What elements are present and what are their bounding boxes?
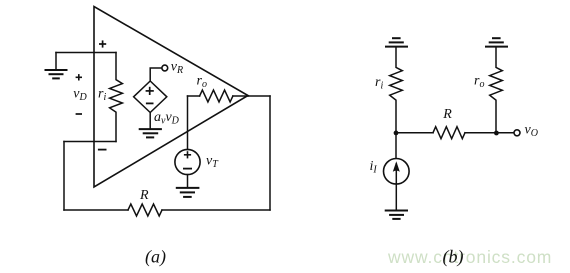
wire feedback bottom right [162, 209, 270, 211]
svg-text:(a): (a) [145, 247, 166, 268]
wire r_o left [188, 95, 200, 97]
ground G6 [386, 211, 407, 219]
label + vD [76, 74, 82, 80]
labels part (b) [370, 74, 538, 268]
terminal vO [514, 130, 520, 136]
label + vT [184, 151, 191, 158]
wire iI to ground [395, 184, 397, 210]
wire feedback left [63, 142, 65, 211]
wire r_o right to apex [233, 95, 248, 97]
wire vT drop [187, 96, 189, 150]
wire feedback bottom left [64, 209, 128, 211]
label + op-amp input [99, 40, 106, 47]
wire diamond to ground [149, 113, 151, 129]
label + diamond [146, 87, 154, 95]
dependent source E1 diamond [134, 81, 167, 113]
op-amp U1 triangle [94, 7, 248, 188]
wire output [248, 95, 270, 97]
label - op-amp input [98, 149, 107, 151]
terminal vR [162, 65, 168, 71]
resistor r_o (a) [200, 90, 233, 102]
node B junction dot [494, 131, 499, 136]
svg-text:(b): (b) [443, 247, 464, 268]
wire node to iI [395, 133, 397, 159]
labels part (a) [73, 60, 219, 268]
wire node to R [396, 132, 433, 134]
source vT circle [175, 149, 200, 174]
node A junction dot [394, 131, 399, 136]
ground G3 [177, 188, 199, 197]
svg-text:R: R [442, 107, 452, 122]
label - vT [183, 168, 192, 170]
wire node to vO [496, 132, 514, 134]
wire vR stub [150, 68, 162, 81]
resistor R (b) [433, 127, 465, 139]
wire inverting input [64, 141, 116, 143]
label - diamond [146, 102, 154, 104]
ground G1 [46, 70, 67, 78]
svg-text:www.cntronics.com: www.cntronics.com [387, 247, 552, 267]
plus/minus marks [76, 40, 192, 168]
wire noninverting input [56, 52, 116, 54]
ground G2 [140, 129, 161, 137]
resistor r_i (a) [110, 53, 123, 142]
arrow of iI [393, 161, 400, 184]
resistor r_o (b) [490, 47, 503, 133]
wire R to node [465, 132, 496, 134]
wire vT to ground [187, 175, 189, 188]
wire feedback right [269, 96, 271, 210]
resistor R (a) [128, 204, 162, 216]
resistor r_i (b) [390, 47, 403, 133]
label - vD [76, 113, 82, 115]
ground G4 (flipped) [386, 38, 407, 46]
source iI circle [384, 159, 410, 185]
ground G5 (flipped) [486, 38, 507, 46]
svg-text:R: R [139, 188, 149, 203]
wire ground drop [55, 53, 57, 70]
